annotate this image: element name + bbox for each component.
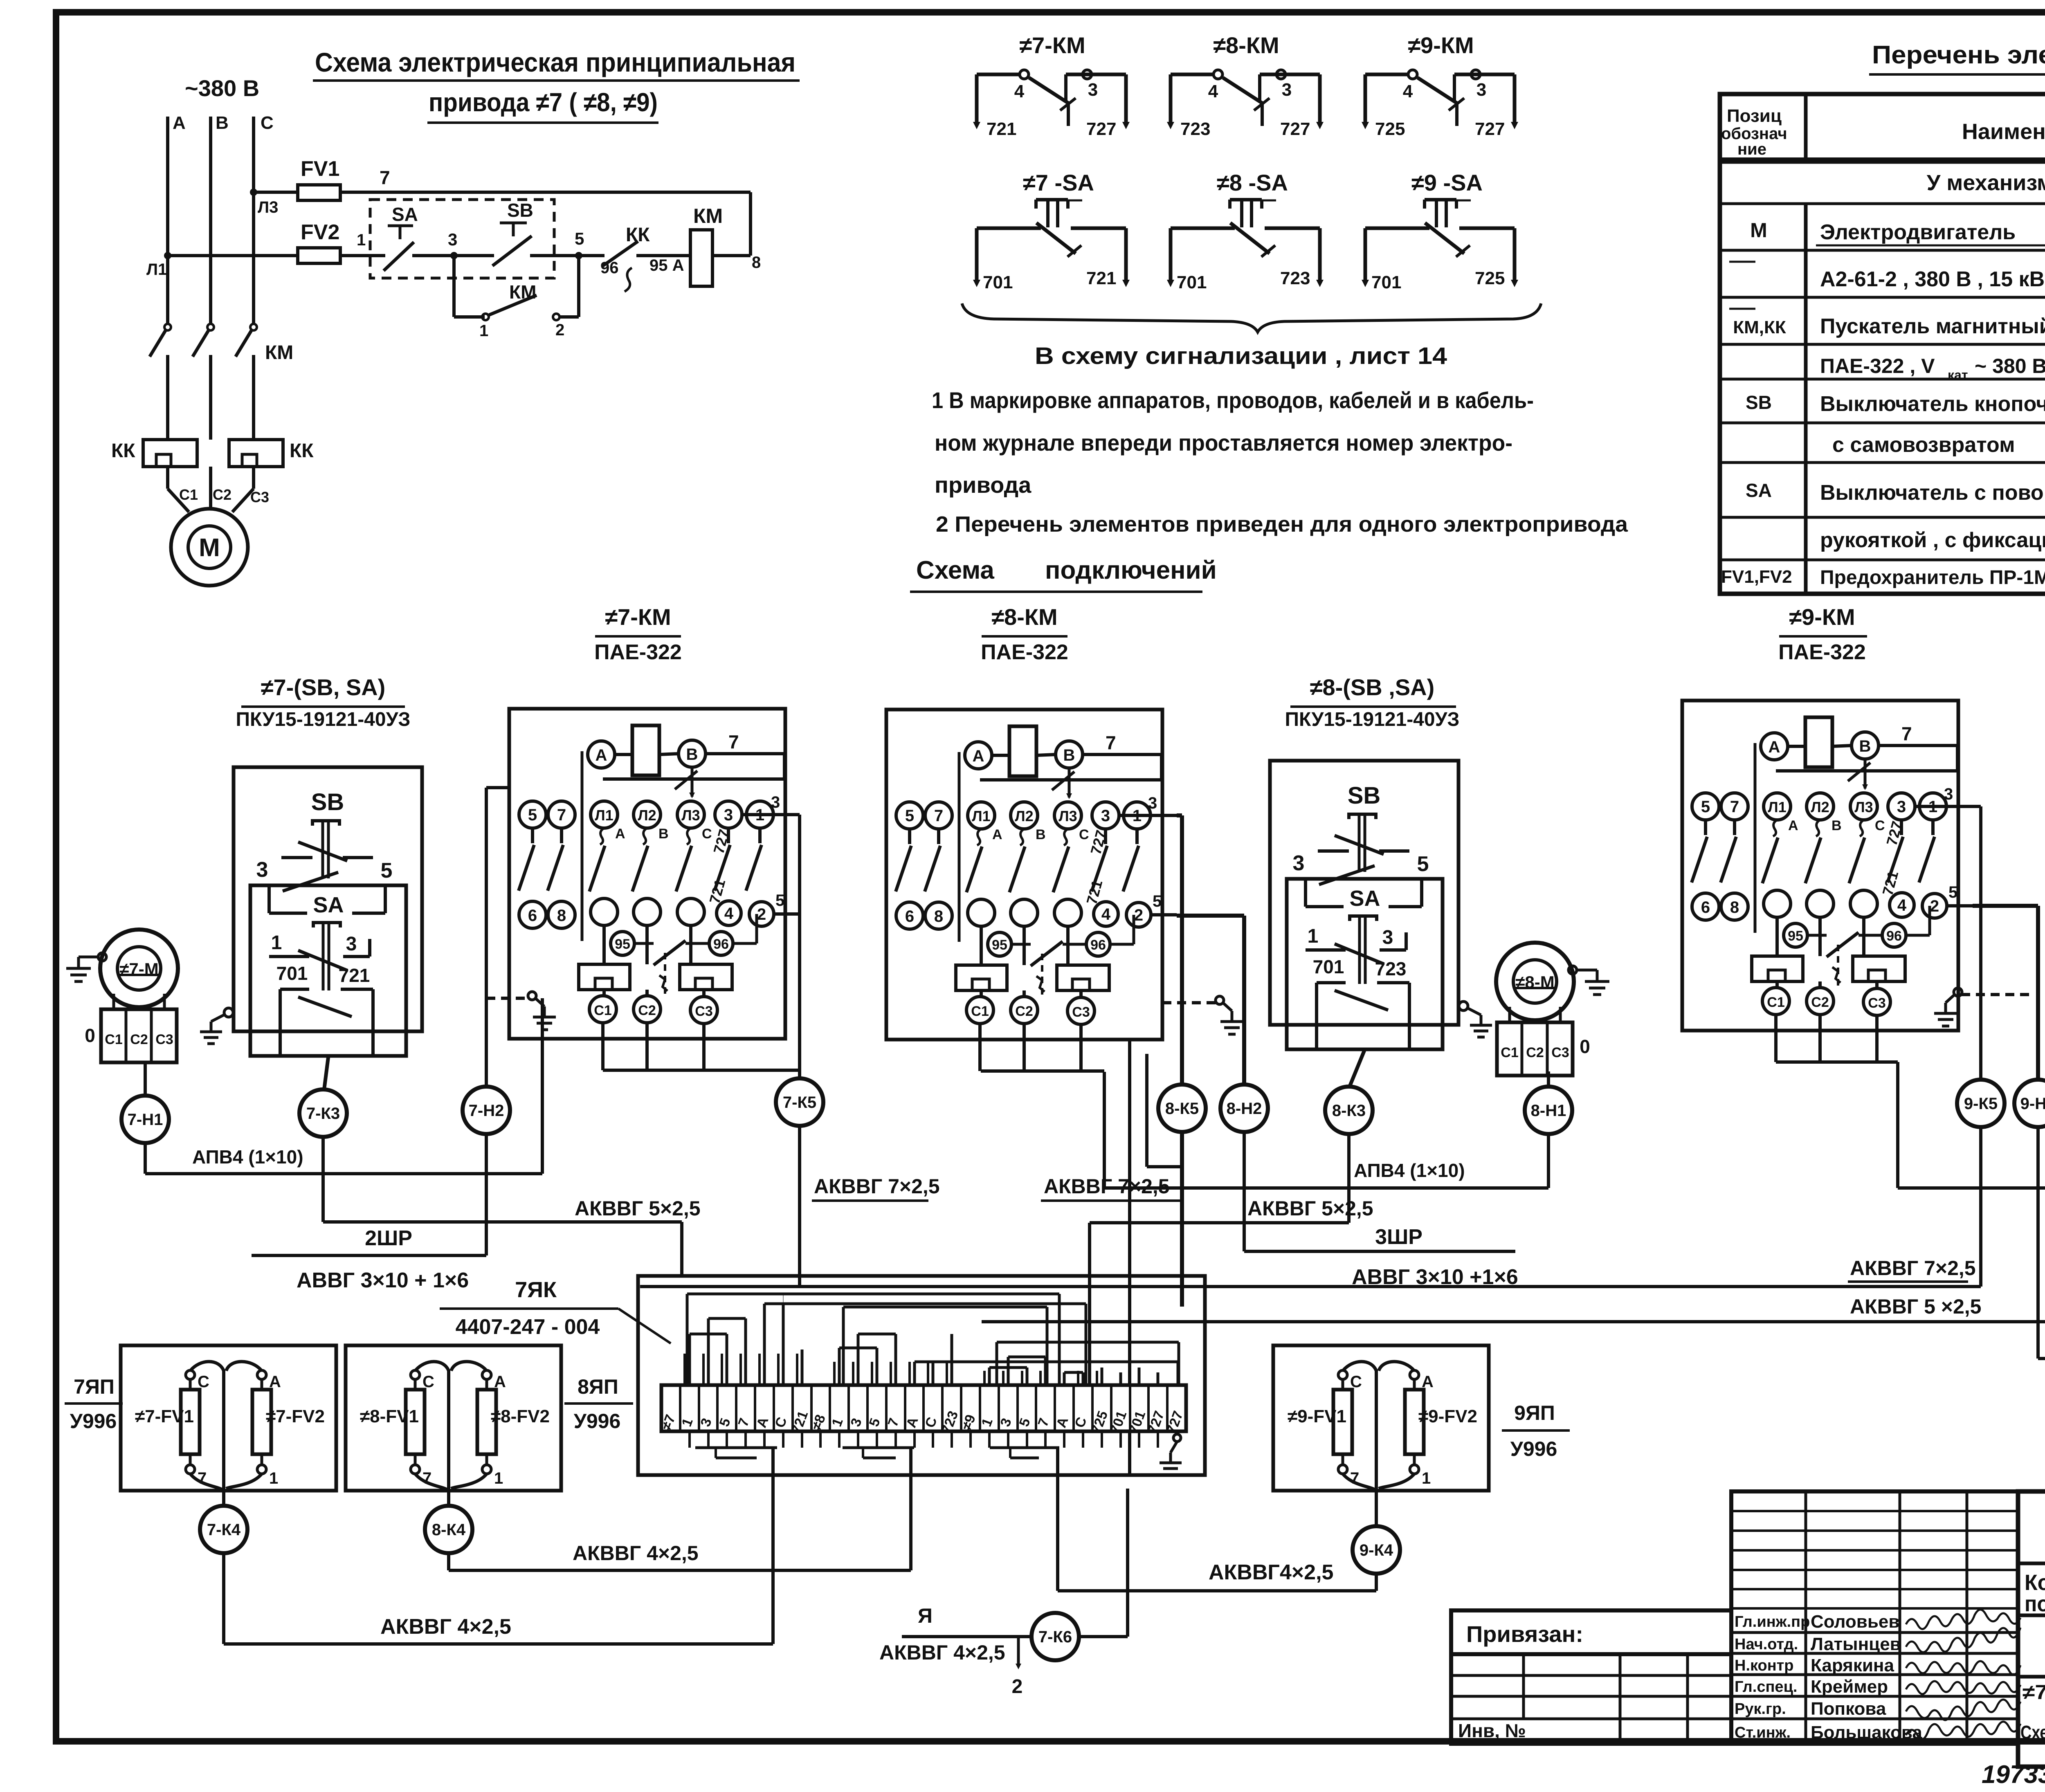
terminal strip: [661, 1385, 1186, 1431]
svg-text:~ 380 В ; Iт = 32 А: ~ 380 В ; Iт = 32 А: [1975, 355, 2045, 377]
svg-text:7: 7: [1730, 798, 1739, 816]
cell object name: [2018, 1614, 2045, 1617]
svg-text:с самовозвратом: с самовозвратом: [1832, 433, 2015, 457]
7-KM aux contacts 5-6 7-8: [531, 828, 534, 843]
cable AKVVG5 group8: [1347, 1134, 1351, 1223]
svg-text:ПКУ15-19121-40УЗ: ПКУ15-19121-40УЗ: [1285, 709, 1459, 730]
terminal box exits down: [771, 1448, 775, 1475]
svg-text:721: 721: [1086, 268, 1116, 288]
svg-text:КМ,КК: КМ,КК: [1733, 317, 1786, 337]
7-KM thermal element 2: [680, 964, 732, 990]
svg-text:2: 2: [1012, 1676, 1023, 1698]
svg-text:Л3: Л3: [1854, 799, 1873, 815]
svg-text:ПАЕ-322: ПАЕ-322: [594, 640, 682, 664]
fuse box 8YaP outline: [346, 1345, 561, 1491]
wire 7YaP to 7-K4: [222, 1491, 225, 1506]
8-KM thermal element 1: [956, 965, 1007, 990]
wire 9YaP to 9-K4: [1375, 1491, 1378, 1526]
svg-text:КМ: КМ: [693, 204, 723, 227]
motor 8-M: [1496, 943, 1574, 1020]
8-KM thermal element 2: [1057, 965, 1109, 990]
svg-text:М: М: [1750, 219, 1767, 242]
8-KM terminal 96: [1086, 932, 1110, 956]
7-KM phase B arrow: [691, 767, 694, 797]
cable marker 7-Н2: [463, 1087, 510, 1134]
svg-text:≠7-(SB, SA): ≠7-(SB, SA): [261, 674, 386, 700]
svg-text:3: 3: [256, 858, 268, 882]
svg-text:≠9 -SA: ≠9 -SA: [1411, 170, 1483, 195]
svg-text:АКВВГ 5 ×2,5: АКВВГ 5 ×2,5: [1850, 1295, 1981, 1318]
svg-text:Креймер: Креймер: [1811, 1677, 1888, 1697]
svg-text:Попкова: Попкова: [1811, 1699, 1886, 1719]
motor 7 terminal box: [101, 1009, 177, 1062]
self-holding contact KM: [452, 256, 456, 317]
svg-text:ном журнале впереди проста: ном журнале впереди проставляется номер …: [935, 430, 1512, 456]
svg-text:С2: С2: [1526, 1045, 1544, 1060]
svg-text:7ЯП: 7ЯП: [74, 1375, 115, 1398]
7-KM pole contacts: [600, 828, 604, 844]
cable marker 7-К4: [200, 1506, 247, 1553]
svg-text:подключений: подключений: [1045, 556, 1217, 584]
svg-text:Л3: Л3: [1058, 808, 1077, 824]
svg-text:АКВВГ 7×2,5: АКВВГ 7×2,5: [814, 1175, 940, 1198]
svg-text:7-К3: 7-К3: [306, 1105, 340, 1123]
svg-text:С1: С1: [594, 1003, 611, 1018]
svg-text:2: 2: [1134, 906, 1143, 924]
9-KM aux contacts 3-4 1-2: [1900, 820, 1903, 835]
svg-text:1: 1: [1308, 925, 1319, 947]
svg-text:≠9-КМ: ≠9-КМ: [1408, 32, 1474, 58]
svg-text:SA: SA: [392, 204, 418, 225]
cable marker 7-К6: [1031, 1613, 1079, 1660]
svg-text:3: 3: [448, 230, 457, 249]
cable 3ShR group8: [1243, 1132, 1246, 1251]
svg-text:2: 2: [1930, 897, 1939, 915]
title block right outline: [2018, 1491, 2045, 1767]
svg-text:С1: С1: [179, 486, 198, 503]
svg-text:≠7-FV1: ≠7-FV1: [135, 1406, 194, 1426]
svg-text:1: 1: [271, 932, 282, 954]
stadia values: [2018, 1675, 2045, 1679]
signature squiggles: [1906, 1610, 2020, 1629]
svg-text:96: 96: [713, 936, 729, 952]
svg-text:≠8-(SB ,SA): ≠8-(SB ,SA): [1310, 674, 1435, 700]
svg-text:В: В: [1063, 746, 1075, 764]
svg-text:Электродвигатель: Электродвигатель: [1820, 220, 2016, 244]
wire 9-N2: [1973, 904, 2038, 908]
svg-text:723: 723: [1280, 268, 1310, 288]
8-KM terminal B: [1056, 741, 1083, 768]
cable marker 8-Н2: [1220, 1085, 1268, 1132]
svg-text:5: 5: [775, 892, 784, 909]
svg-text:Инв, №: Инв, №: [1458, 1720, 1526, 1741]
svg-text:С: С: [261, 113, 274, 133]
terminal box 7YaK outline: [638, 1276, 1205, 1475]
svg-text:С: С: [1875, 818, 1885, 833]
svg-text:2ШР: 2ШР: [365, 1226, 412, 1250]
svg-text:~380 В: ~380 В: [185, 75, 259, 101]
svg-text:5: 5: [905, 807, 914, 825]
svg-text:Л2: Л2: [1015, 808, 1033, 824]
7-KM terminal B: [679, 740, 706, 767]
svg-text:Позиц: Позиц: [1727, 106, 1782, 126]
svg-text:У996: У996: [70, 1410, 117, 1433]
svg-text:FV2: FV2: [301, 220, 339, 244]
svg-text:С1: С1: [1501, 1045, 1518, 1060]
svg-text:2: 2: [757, 905, 766, 923]
svg-text:≠9-FV1: ≠9-FV1: [1288, 1406, 1346, 1426]
svg-text:С: С: [1079, 827, 1089, 842]
svg-text:Л1: Л1: [972, 808, 990, 824]
KM8 aux feed: [1145, 1054, 1148, 1167]
cable AKVVG4 group8: [447, 1553, 450, 1570]
pri-vyazan box: [1451, 1610, 1731, 1654]
svg-text:Н.контр: Н.контр: [1735, 1657, 1794, 1674]
8-KM coil: [1009, 726, 1036, 776]
svg-text:С1: С1: [105, 1032, 122, 1047]
8-KM 95-96 trip contact: [1011, 943, 1031, 946]
9-KM thermal element 2: [1853, 956, 1905, 981]
svg-text:SB: SB: [1348, 782, 1381, 809]
svg-text:701: 701: [1371, 272, 1401, 292]
9-KM terminal 96: [1882, 923, 1906, 947]
svg-text:19733- 07: 19733- 07: [1982, 1761, 2045, 1789]
wire from KM8 area down to terminal box: [1128, 1040, 1131, 1385]
cable marker 8-К3: [1325, 1087, 1373, 1134]
8-KM pole contacts: [977, 829, 981, 845]
svg-text:А: А: [494, 1373, 506, 1391]
wire KM8 exit 5 to 8-N2 riser: [1177, 914, 1244, 918]
fuse 9-FV at 3458: [1410, 1370, 1419, 1379]
fuse box 7YaP outline: [121, 1345, 336, 1491]
thermal heater KK phase A: [143, 440, 197, 467]
svg-text:АВВГ 3×10 + 1×6: АВВГ 3×10 + 1×6: [297, 1269, 469, 1292]
cable marker 7-К5: [776, 1078, 823, 1126]
svg-text:8: 8: [1730, 898, 1739, 916]
svg-text:SB: SB: [507, 200, 533, 221]
svg-text:≠8-FV2: ≠8-FV2: [491, 1406, 550, 1426]
8-KM aux contacts 5-6 7-8: [908, 829, 911, 844]
svg-text:4: 4: [1208, 81, 1218, 101]
7-KM inner frame: [581, 751, 584, 941]
7 SB contact bars: [250, 884, 298, 887]
svg-text:727: 727: [1475, 119, 1505, 139]
svg-text:0: 0: [1580, 1036, 1590, 1057]
terminal strip paired wire texture: [683, 1354, 686, 1385]
svg-text:ние: ние: [1737, 140, 1766, 158]
fuse FV2: [168, 254, 370, 257]
svg-text:Л1: Л1: [595, 807, 613, 824]
svg-text:1: 1: [479, 322, 488, 340]
svg-text:А: А: [173, 113, 186, 133]
node L1: [164, 252, 171, 259]
svg-text:С3: С3: [1551, 1045, 1569, 1060]
cable marker 9-Н2: [2014, 1080, 2045, 1127]
svg-text:7: 7: [934, 807, 943, 825]
svg-text:А: А: [1422, 1373, 1434, 1391]
cable AKVVG4 group9: [1375, 1574, 1378, 1591]
svg-text:1: 1: [357, 231, 366, 249]
7-KM thermal element 1: [579, 964, 630, 990]
svg-text:Ст.инж.: Ст.инж.: [1735, 1724, 1791, 1741]
svg-text:2: 2: [555, 321, 564, 339]
svg-text:95: 95: [992, 937, 1007, 953]
svg-text:А2-61-2 , 380 В , 15 кВт: А2-61-2 , 380 В , 15 кВт ; 33,2 А: [1820, 267, 2045, 291]
svg-text:Пускатель магнитный: Пускатель магнитный: [1820, 314, 2045, 338]
svg-text:≠8-КМ: ≠8-КМ: [1213, 32, 1279, 58]
7 box exit wire: [324, 1056, 328, 1091]
svg-text:727: 727: [1086, 119, 1116, 139]
svg-text:А: А: [973, 747, 984, 765]
svg-text:С2: С2: [1015, 1004, 1033, 1019]
terminal strip lower combs: [716, 1457, 757, 1460]
svg-text:≠7-КМ: ≠7-КМ: [1019, 32, 1085, 58]
wire 8YaP to 8-K4: [447, 1491, 450, 1506]
svg-text:АКВВГ 4×2,5: АКВВГ 4×2,5: [380, 1615, 511, 1639]
svg-text:3: 3: [1088, 80, 1098, 100]
8-KM C terminals drop bus: [978, 1024, 982, 1071]
svg-text:КМ: КМ: [265, 342, 293, 364]
8 inner box: [1287, 879, 1443, 1049]
svg-text:5: 5: [528, 806, 537, 824]
svg-text:Котельная с 4 котлами „Факел“: Котельная с 4 котлами „Факел“ и 2 контак…: [2025, 1570, 2045, 1595]
svg-text:95 А: 95 А: [649, 256, 684, 274]
KM7 C bus to K5: [603, 1069, 800, 1072]
svg-text:8ЯП: 8ЯП: [578, 1375, 618, 1398]
spare core arrow 2: [1017, 1637, 1020, 1665]
9-KM terminal 95: [1784, 923, 1807, 947]
KM9 dashed ground link: [1961, 993, 2035, 996]
svg-text:Л1: Л1: [1768, 799, 1786, 815]
svg-text:701: 701: [276, 963, 308, 984]
7-KM terminal circles row: [519, 801, 546, 828]
svg-text:АПВ4 (1×10): АПВ4 (1×10): [192, 1146, 303, 1168]
svg-text:АПВ4 (1×10): АПВ4 (1×10): [1354, 1160, 1465, 1181]
svg-text:7: 7: [557, 806, 566, 824]
svg-text:7: 7: [380, 167, 390, 188]
svg-text:Схема электрическая принци: Схема электрическая принципиальная: [315, 47, 796, 77]
svg-text:5: 5: [575, 229, 584, 248]
9-KM terminal B: [1852, 732, 1879, 759]
svg-text:С2: С2: [638, 1003, 656, 1018]
svg-text:КМ: КМ: [509, 281, 536, 303]
8-KM aux contacts 3-4 1-2: [1104, 829, 1107, 844]
svg-text:721: 721: [339, 965, 370, 986]
svg-text:6: 6: [905, 907, 914, 925]
svg-text:8-К3: 8-К3: [1332, 1102, 1366, 1120]
svg-text:8: 8: [934, 907, 943, 925]
svg-text:У996: У996: [574, 1410, 621, 1433]
svg-text:4: 4: [1014, 81, 1025, 101]
cable 3ShR group9: [2036, 1127, 2040, 1359]
svg-text:Л3: Л3: [681, 807, 700, 824]
7-KM aux contacts 3-4 1-2: [727, 828, 730, 843]
svg-text:АКВВГ 5×2,5: АКВВГ 5×2,5: [1247, 1197, 1373, 1220]
svg-text:4: 4: [1403, 81, 1413, 101]
motor 8 terminal box: [1497, 1022, 1573, 1076]
svg-text:ПАЕ-322 , V: ПАЕ-322 , V: [1820, 355, 1935, 377]
table col1 dash marks: [1729, 261, 1755, 263]
svg-text:В: В: [658, 826, 669, 842]
svg-text:Латынцев: Латынцев: [1811, 1634, 1901, 1654]
cable APV4 group7: [144, 1143, 147, 1174]
8-KM terminal 95: [988, 932, 1011, 956]
svg-text:SB: SB: [311, 789, 344, 815]
svg-text:723: 723: [1375, 958, 1407, 979]
svg-text:4407-247 - 004: 4407-247 - 004: [456, 1315, 600, 1339]
8-KM inner frame: [958, 752, 961, 942]
KM7 dashed ground link: [486, 997, 529, 1000]
node L3: [250, 189, 257, 196]
cable marker 8-К4: [425, 1506, 472, 1553]
motor M main: [171, 509, 248, 586]
fuse 8-FV at 1015: [411, 1370, 420, 1379]
svg-text:721: 721: [987, 119, 1016, 139]
wire KM8 right exit to 8-K5: [1177, 813, 1182, 817]
svg-text:Предохранитель ПР-1М , Iпл: Предохранитель ПР-1М , Iпл.вст = 6А: [1820, 567, 2045, 588]
9-KM C terminals drop bus: [1774, 1015, 1778, 1062]
svg-text:С3: С3: [250, 489, 269, 505]
9-KM wire 7 bus: [1879, 744, 1957, 747]
svg-text:7: 7: [1901, 723, 1912, 744]
svg-text:9-К4: 9-К4: [1360, 1541, 1393, 1559]
svg-text:Гл.спец.: Гл.спец.: [1735, 1678, 1797, 1695]
svg-text:Привязан:: Привязан:: [1466, 1621, 1583, 1647]
svg-text:А: А: [1769, 738, 1780, 756]
svg-text:У996: У996: [1510, 1437, 1557, 1460]
svg-text:96: 96: [1886, 928, 1902, 944]
svg-text:725: 725: [1475, 268, 1505, 288]
svg-text:Л1: Л1: [146, 260, 167, 278]
node 3: [450, 252, 458, 259]
svg-text:Выключатель с поворотной: Выключатель с поворотной: [1820, 481, 2045, 505]
terminal strip wiring above group 8: [838, 1348, 841, 1385]
svg-text:А: А: [992, 827, 1002, 842]
svg-text:3: 3: [346, 933, 357, 955]
fuse FV1: [254, 191, 751, 194]
svg-text:А: А: [1788, 818, 1798, 833]
svg-text:7ЯК: 7ЯК: [515, 1278, 557, 1302]
8-KM wire 7 bus: [1083, 753, 1162, 756]
KM8 dashed ground link: [1162, 1001, 1216, 1004]
8-KM phase B arrow: [1068, 768, 1071, 797]
svg-text:3: 3: [1476, 80, 1486, 100]
svg-text:≠9-FV2: ≠9-FV2: [1418, 1406, 1477, 1426]
cable marker 8-Н1: [1525, 1087, 1572, 1134]
svg-text:В: В: [1832, 818, 1842, 833]
svg-text:Гл.инж.пр: Гл.инж.пр: [1735, 1613, 1810, 1630]
main contacts KM on phases: [164, 324, 171, 330]
wire phase B: [209, 117, 212, 325]
svg-text:Большакова: Большакова: [1811, 1722, 1922, 1743]
svg-text:≠7-FV2: ≠7-FV2: [266, 1406, 325, 1426]
svg-text:АКВВГ4×2,5: АКВВГ4×2,5: [1209, 1561, 1333, 1584]
dashed enclosure around SA SB: [370, 200, 554, 278]
svg-text:КК: КК: [290, 440, 314, 462]
svg-text:727: 727: [1280, 119, 1310, 139]
9-KM phase B arrow: [1864, 759, 1867, 788]
magnetic starter box 8-KM PAE-322: [886, 710, 1162, 1040]
svg-text:5: 5: [1701, 798, 1710, 816]
fuse box 8 internal wires: [415, 1362, 449, 1491]
svg-text:АКВВГ 4×2,5: АКВВГ 4×2,5: [573, 1542, 699, 1565]
svg-text:Карякина: Карякина: [1811, 1655, 1894, 1675]
8 box exit wire: [1349, 1049, 1365, 1088]
svg-text:С3: С3: [1868, 995, 1885, 1011]
svg-text:3: 3: [771, 793, 780, 811]
svg-text:SA: SA: [1746, 480, 1772, 501]
9-KM thermal element 1: [1752, 956, 1803, 981]
svg-text:5: 5: [1417, 852, 1429, 876]
svg-text:3: 3: [1282, 80, 1292, 100]
svg-text:С1: С1: [1767, 995, 1784, 1010]
terminal box internal ground: [1173, 1434, 1181, 1442]
svg-text:701: 701: [1313, 956, 1344, 977]
svg-text:С2: С2: [213, 486, 231, 503]
svg-text:привода ≠7 ( ≠8, ≠9): привода ≠7 ( ≠8, ≠9): [429, 88, 658, 117]
svg-text:С1: С1: [971, 1004, 989, 1019]
svg-text:В: В: [216, 113, 229, 133]
7-KM terminals C1 C2 C3: [602, 990, 606, 996]
svg-text:8: 8: [557, 907, 566, 925]
wire 8-N1 and APV4 group8: [1547, 1071, 1550, 1087]
svg-text:ПКУ15-19121-40УЗ: ПКУ15-19121-40УЗ: [236, 709, 410, 730]
svg-text:С: С: [1350, 1373, 1362, 1391]
9-KM terminal A: [1761, 733, 1788, 760]
svg-text:Схема электрическая принципиал: Схема электрическая принципиальная: [2020, 1722, 2045, 1743]
svg-text:7-К6: 7-К6: [1038, 1628, 1072, 1646]
svg-text:3ШР: 3ШР: [1375, 1225, 1423, 1249]
svg-text:У механизма: У механизма: [1927, 171, 2045, 195]
svg-text:привода: привода: [935, 472, 1031, 498]
7-KM 95-96 trip contact: [634, 942, 654, 945]
9-KM coil: [1805, 717, 1832, 767]
svg-text:8: 8: [752, 254, 761, 272]
cable marker 8-К5: [1158, 1085, 1206, 1132]
9-KM pole contacts: [1773, 820, 1777, 836]
8-KM terminal circles row: [896, 802, 923, 829]
svg-text:3: 3: [724, 806, 733, 824]
9-KM terminals C1 C2 C3: [1775, 981, 1779, 988]
9-KM inner frame: [1754, 743, 1757, 933]
svg-text:96: 96: [1090, 937, 1106, 953]
svg-text:1: 1: [1422, 1469, 1431, 1487]
7-KM coil: [632, 725, 659, 775]
svg-text:7-К5: 7-К5: [783, 1094, 816, 1112]
svg-text:Я: Я: [918, 1604, 933, 1627]
svg-text:С3: С3: [155, 1032, 173, 1047]
svg-text:В: В: [1036, 827, 1046, 842]
cable marker 9-К4: [1353, 1526, 1400, 1574]
svg-text:9-Н2: 9-Н2: [2020, 1095, 2045, 1113]
cell TP 903: [2018, 1562, 2045, 1565]
svg-text:Л3: Л3: [258, 198, 278, 216]
svg-text:С3: С3: [1072, 1004, 1090, 1020]
thermal heater KK phase C: [229, 440, 283, 467]
svg-text:В схему сигнализации ,: В схему сигнализации , лист 14: [1035, 343, 1447, 369]
terminal strip lower stubs: [688, 1431, 691, 1448]
svg-text:≠8-КМ: ≠8-КМ: [991, 604, 1057, 630]
7-KM C terminals drop bus: [601, 1023, 605, 1070]
9-KM aux contacts 5-6 7-8: [1704, 820, 1707, 835]
7-KM terminal A: [588, 741, 615, 768]
svg-text:SA: SA: [313, 893, 344, 917]
svg-text:рукояткой , с фиксацией ,: рукояткой , с фиксацией , 2р: [1820, 528, 2045, 552]
9-KM terminal circles row: [1692, 793, 1719, 820]
svg-text:5: 5: [381, 859, 393, 883]
svg-text:Выключатель кнопочный: Выключатель кнопочный: [1820, 392, 2045, 416]
fuse 8-FV at 1190: [482, 1370, 491, 1379]
